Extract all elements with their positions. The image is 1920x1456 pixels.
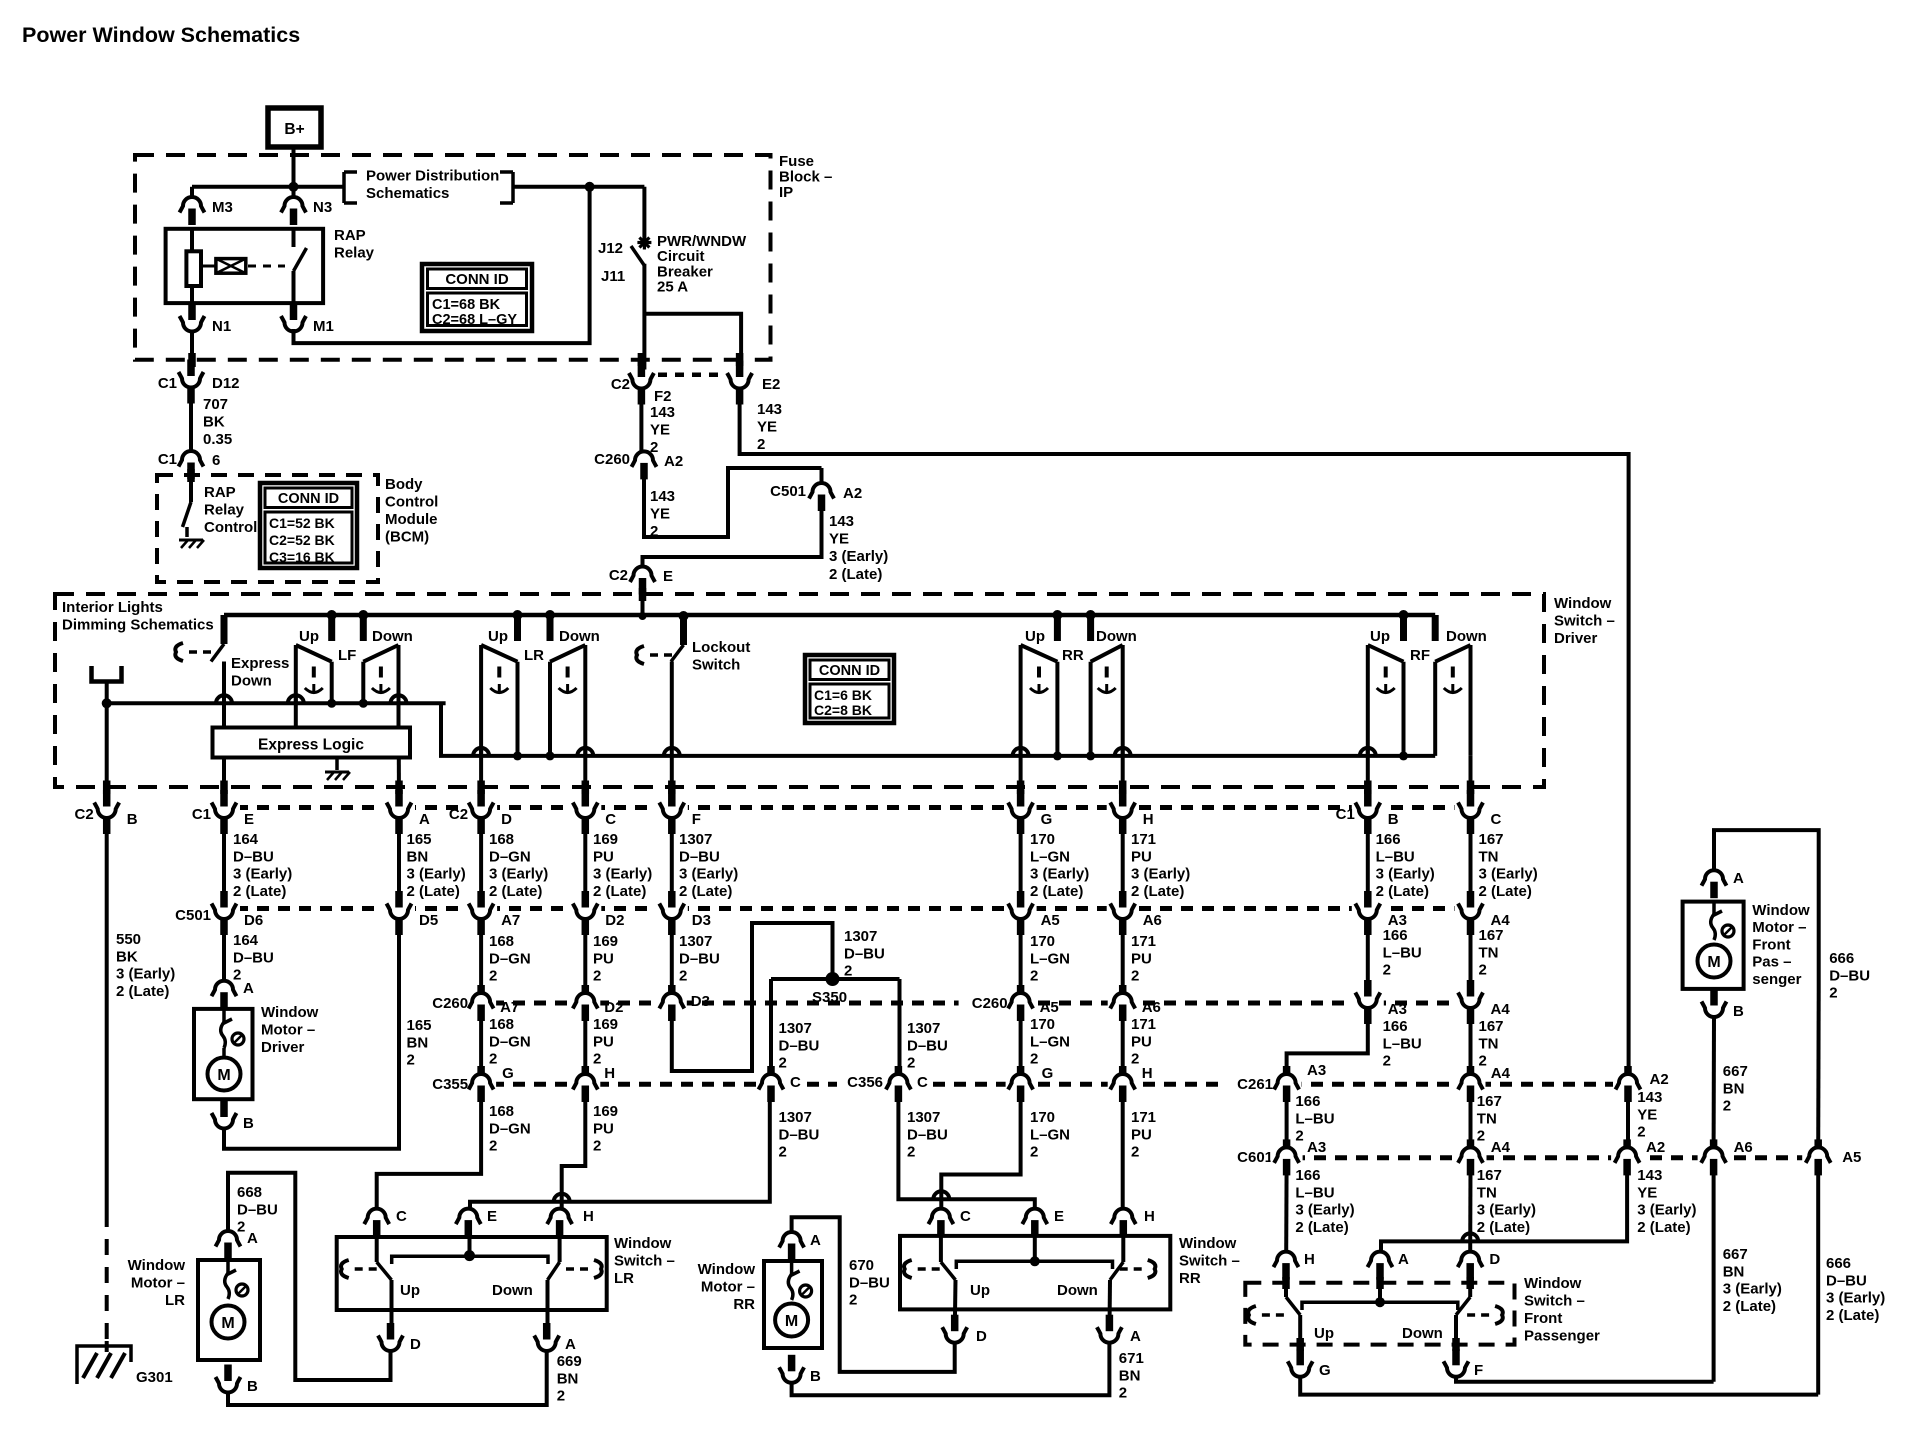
connector row1 pin B (C2) bbox=[75, 790, 138, 834]
relay coil bbox=[186, 229, 201, 303]
svg-text:TN: TN bbox=[1477, 1184, 1497, 1201]
connector row2 dashed line bbox=[236, 906, 1458, 911]
svg-text:2 (Late): 2 (Late) bbox=[1479, 883, 1532, 900]
svg-text:D–BU: D–BU bbox=[779, 1126, 820, 1143]
RR switch bracket bbox=[956, 1261, 1112, 1269]
svg-text:Motor –: Motor – bbox=[701, 1279, 755, 1296]
label J11 bbox=[601, 268, 625, 285]
connector RR motor B bbox=[777, 1355, 821, 1385]
connector row1 pin D (C2) bbox=[449, 790, 512, 834]
label A6 pin C601 bbox=[1730, 1138, 1760, 1156]
label RF bbox=[1410, 647, 1430, 664]
svg-text:707: 707 bbox=[203, 396, 228, 413]
svg-text:168: 168 bbox=[489, 1103, 514, 1120]
node C2 E at bus bbox=[639, 612, 647, 620]
window switch driver dashed box bbox=[55, 594, 1544, 787]
svg-text:Switch –: Switch – bbox=[1524, 1293, 1585, 1310]
label Down RR bbox=[1096, 628, 1137, 645]
svg-text:2: 2 bbox=[679, 968, 687, 985]
svg-text:Window: Window bbox=[1179, 1235, 1237, 1252]
svg-text:D–BU: D–BU bbox=[233, 848, 274, 865]
wire motor driver B loop to D5 bbox=[224, 919, 399, 1149]
svg-text:A4: A4 bbox=[1491, 1065, 1511, 1082]
wire LR up to D bbox=[479, 748, 483, 808]
connector C261 A4 bbox=[1456, 1066, 1486, 1102]
svg-text:2: 2 bbox=[1723, 1098, 1731, 1115]
wire LR down to C bbox=[583, 748, 587, 808]
LR switch E link bbox=[464, 1222, 475, 1261]
svg-text:M1: M1 bbox=[313, 318, 334, 335]
wire 1307 left lower bbox=[470, 1092, 819, 1209]
svg-text:2: 2 bbox=[407, 1052, 415, 1069]
svg-text:2: 2 bbox=[907, 1055, 915, 1072]
svg-text:Down: Down bbox=[231, 673, 272, 690]
connector row2 pin A5 bbox=[1005, 891, 1060, 935]
label Up RF bbox=[1370, 628, 1390, 645]
svg-text:Express: Express bbox=[231, 655, 289, 672]
label Body Control Module BCM bbox=[385, 476, 438, 546]
svg-text:Motor –: Motor – bbox=[131, 1275, 185, 1292]
wire 1307 D-BU 2 upper bbox=[672, 919, 720, 993]
wire 166 L-BU 2 a bbox=[1368, 919, 1422, 995]
svg-text:C3=16 BK: C3=16 BK bbox=[269, 549, 335, 565]
label Down RR switch bbox=[1057, 1282, 1098, 1299]
connector motor driver B bbox=[209, 1101, 254, 1133]
svg-text:LR: LR bbox=[524, 647, 544, 664]
RAP relay control switch bbox=[183, 469, 192, 537]
connector LR motor B bbox=[213, 1365, 258, 1396]
svg-text:(BCM): (BCM) bbox=[385, 529, 429, 546]
svg-text:2: 2 bbox=[1479, 1053, 1487, 1070]
window switch RF down bbox=[1435, 645, 1470, 756]
wire 170 L-GN 2 mid bbox=[1021, 1011, 1070, 1082]
svg-text:171: 171 bbox=[1131, 1109, 1156, 1126]
svg-text:BK: BK bbox=[203, 414, 225, 431]
wire S350 right branch bbox=[900, 979, 948, 1075]
window motor FP box bbox=[1683, 902, 1744, 989]
svg-text:1307: 1307 bbox=[679, 933, 712, 950]
svg-text:550: 550 bbox=[116, 931, 141, 948]
label A5 pin C601 bbox=[1842, 1149, 1861, 1166]
svg-text:PU: PU bbox=[1131, 848, 1152, 865]
svg-text:C: C bbox=[1491, 811, 1502, 828]
svg-text:170: 170 bbox=[1030, 1016, 1055, 1033]
svg-text:C: C bbox=[790, 1074, 801, 1091]
wire label 670 D-BU 2 bbox=[849, 1257, 890, 1309]
wire M3 drop bbox=[190, 187, 194, 199]
svg-text:2: 2 bbox=[1030, 1144, 1038, 1161]
svg-text:1307: 1307 bbox=[907, 1109, 940, 1126]
svg-text:Front: Front bbox=[1524, 1310, 1562, 1327]
svg-text:BN: BN bbox=[407, 848, 429, 865]
svg-text:3 (Early): 3 (Early) bbox=[679, 866, 738, 883]
svg-text:G: G bbox=[1042, 1065, 1054, 1082]
CONN ID table BCM bbox=[260, 483, 357, 568]
svg-text:167: 167 bbox=[1479, 927, 1504, 944]
svg-text:L–GN: L–GN bbox=[1030, 950, 1070, 967]
svg-text:169: 169 bbox=[593, 933, 618, 950]
svg-text:A3: A3 bbox=[1307, 1062, 1326, 1079]
LR arrow right bbox=[566, 1260, 602, 1278]
express logic ground stem bbox=[335, 758, 339, 771]
label Window Switch Front Passenger bbox=[1524, 1275, 1600, 1345]
wire LR motor A loop bbox=[228, 1173, 391, 1380]
node LR up bus bbox=[513, 751, 522, 760]
wire 167 TN col x1470 bbox=[1471, 818, 1538, 905]
wire 167 TN early/late bbox=[1470, 1166, 1536, 1252]
svg-text:Up: Up bbox=[400, 1282, 420, 1299]
connector LR switch D bbox=[376, 1323, 422, 1353]
svg-text:2 (Late): 2 (Late) bbox=[679, 883, 732, 900]
LR switch H blade bbox=[548, 1222, 560, 1344]
svg-text:167: 167 bbox=[1477, 1167, 1502, 1184]
FP motor M bbox=[1698, 945, 1731, 978]
svg-text:169: 169 bbox=[593, 1016, 618, 1033]
svg-text:165: 165 bbox=[407, 1017, 432, 1034]
svg-text:D3: D3 bbox=[691, 993, 710, 1010]
svg-text:2: 2 bbox=[1295, 1128, 1303, 1145]
svg-text:A: A bbox=[810, 1232, 821, 1249]
driver box top crossing stub C2 E bbox=[639, 588, 647, 601]
connector LR switch C bbox=[362, 1208, 407, 1237]
svg-text:H: H bbox=[1143, 811, 1154, 828]
wire label 143 YE 2 (E2) bbox=[757, 401, 782, 453]
svg-text:RR: RR bbox=[733, 1296, 755, 1313]
connector C501 A2 bbox=[770, 483, 862, 511]
connector RR switch D bbox=[940, 1315, 987, 1345]
connector row C2 F2/E2 dashes bbox=[658, 373, 726, 378]
svg-text:A: A bbox=[1398, 1251, 1409, 1268]
wire express logic to E bbox=[222, 758, 226, 809]
svg-text:C2: C2 bbox=[449, 806, 468, 823]
svg-text:3 (Early): 3 (Early) bbox=[1826, 1290, 1885, 1307]
window switch RR down bbox=[1091, 645, 1123, 756]
BCM box top crossing stub bbox=[187, 469, 195, 482]
dimming schematics plug symbol bbox=[92, 666, 122, 682]
svg-text:Window: Window bbox=[261, 1004, 319, 1021]
svg-text:A: A bbox=[243, 980, 254, 997]
circuit breaker blade bbox=[631, 246, 644, 265]
wire label 1307 D-BU 2 (S350 feed) bbox=[844, 928, 885, 980]
connector row3 A3 bbox=[1352, 980, 1407, 1024]
ground G301 bbox=[77, 1341, 173, 1386]
svg-text:C1=68 BK: C1=68 BK bbox=[432, 297, 501, 313]
svg-text:H: H bbox=[583, 1208, 594, 1225]
wire 143 YE 2 c bbox=[1628, 1089, 1665, 1156]
svg-text:C356: C356 bbox=[847, 1074, 883, 1091]
svg-text:M: M bbox=[785, 1313, 798, 1330]
connector motor driver A bbox=[209, 980, 254, 1009]
connector row1 pin B (C1) bbox=[1336, 790, 1399, 834]
label A3 pin C261 bbox=[1307, 1062, 1326, 1079]
svg-text:C355: C355 bbox=[432, 1076, 468, 1093]
connector C260 A2 bbox=[594, 451, 683, 479]
svg-text:C: C bbox=[396, 1208, 407, 1225]
svg-text:C2=68 L–GY: C2=68 L–GY bbox=[432, 312, 517, 328]
svg-text:J11: J11 bbox=[601, 268, 625, 285]
connector C260 D3 bbox=[657, 985, 710, 1021]
svg-text:2: 2 bbox=[557, 1388, 565, 1405]
svg-text:A: A bbox=[1733, 870, 1744, 887]
wire 167 TN 2 a bbox=[1471, 919, 1504, 995]
svg-text:2 (Late): 2 (Late) bbox=[489, 883, 542, 900]
svg-text:C501: C501 bbox=[770, 483, 806, 500]
connector LR switch A bbox=[532, 1323, 582, 1405]
connector C260 D2 bbox=[570, 985, 623, 1021]
svg-text:Pas –: Pas – bbox=[1752, 954, 1791, 971]
wire 168 D–GN col x481 bbox=[481, 818, 548, 905]
wire N1 to C1 D12 bbox=[190, 330, 194, 373]
svg-text:Power Distribution: Power Distribution bbox=[366, 168, 499, 185]
wire express logic to A bbox=[397, 758, 401, 809]
svg-text:Dimming Schematics: Dimming Schematics bbox=[62, 617, 214, 634]
svg-text:2: 2 bbox=[1829, 985, 1837, 1002]
title bbox=[22, 23, 300, 47]
svg-text:C: C bbox=[960, 1208, 971, 1225]
svg-text:Down: Down bbox=[492, 1282, 533, 1299]
svg-text:2: 2 bbox=[489, 1051, 497, 1068]
wire label 707 BK 0.35 bbox=[203, 396, 232, 448]
svg-text:2 (Late): 2 (Late) bbox=[1826, 1307, 1879, 1324]
relay dashed link bbox=[248, 265, 285, 268]
wire 666 D-BU early/late bbox=[1818, 1166, 1885, 1395]
svg-text:C2=8 BK: C2=8 BK bbox=[814, 702, 872, 718]
svg-text:C2: C2 bbox=[611, 376, 630, 393]
svg-text:CONN ID: CONN ID bbox=[819, 663, 880, 679]
connector C601 pin A6 bbox=[1698, 1139, 1730, 1175]
svg-text:25 A: 25 A bbox=[657, 279, 688, 296]
svg-text:0.35: 0.35 bbox=[203, 431, 232, 448]
svg-text:YE: YE bbox=[650, 422, 670, 439]
wire 166 L-BU 2 c bbox=[1287, 1092, 1335, 1156]
bump LF up bbox=[288, 695, 304, 703]
svg-text:671: 671 bbox=[1119, 1350, 1144, 1367]
label Up LR bbox=[488, 628, 508, 645]
svg-text:Down: Down bbox=[1096, 628, 1137, 645]
svg-text:N3: N3 bbox=[313, 199, 332, 216]
switch RR down stub bbox=[1087, 615, 1094, 641]
svg-text:1307: 1307 bbox=[679, 831, 712, 848]
bump 1307-right over RR C wire bbox=[933, 1191, 949, 1199]
wire 169 PU 2 mid bbox=[585, 1011, 618, 1082]
connector LR motor A bbox=[213, 1184, 278, 1259]
svg-text:D–BU: D–BU bbox=[679, 848, 720, 865]
connector row2 pin A6 bbox=[1107, 891, 1162, 935]
connector RR switch C bbox=[926, 1208, 971, 1237]
svg-text:2: 2 bbox=[779, 1144, 787, 1161]
wire D3 loop to S350 bbox=[672, 923, 833, 1071]
svg-text:H: H bbox=[1144, 1208, 1155, 1225]
svg-text:Up: Up bbox=[1314, 1325, 1334, 1342]
svg-text:L–GN: L–GN bbox=[1030, 1126, 1070, 1143]
window switch FP dashed box bbox=[1245, 1283, 1514, 1345]
FP switch bracket bbox=[1302, 1302, 1458, 1310]
connector C261 A3 bbox=[1226, 1066, 1302, 1102]
bump LR down bbox=[577, 748, 593, 756]
fuse block dashed outline bbox=[135, 155, 771, 360]
svg-text:LF: LF bbox=[338, 647, 356, 664]
wire S350 rail bbox=[771, 977, 900, 981]
LR motor M bbox=[212, 1306, 245, 1339]
svg-text:G: G bbox=[1041, 811, 1053, 828]
svg-text:Window: Window bbox=[614, 1235, 672, 1252]
label LF bbox=[338, 647, 356, 664]
svg-text:E: E bbox=[663, 568, 673, 585]
connector FP switch G bbox=[1285, 1349, 1330, 1379]
connector C260 A7 bbox=[432, 985, 519, 1021]
svg-text:H: H bbox=[604, 1065, 615, 1082]
connector row2 pin D6 bbox=[208, 891, 263, 935]
svg-text:6: 6 bbox=[212, 452, 220, 469]
label Down FP switch bbox=[1402, 1325, 1443, 1342]
svg-text:Down: Down bbox=[1446, 628, 1487, 645]
BCM dashed box bbox=[157, 475, 378, 582]
svg-text:F: F bbox=[692, 811, 701, 828]
wire 168 D-GN 2 upper bbox=[481, 919, 531, 993]
svg-text:171: 171 bbox=[1131, 1016, 1156, 1033]
bump lockout bbox=[664, 748, 680, 756]
wire RF down to C bbox=[1469, 756, 1473, 808]
svg-text:Control: Control bbox=[204, 519, 257, 536]
svg-text:C: C bbox=[605, 811, 616, 828]
svg-text:C260: C260 bbox=[594, 451, 630, 468]
node RR down stub bbox=[1086, 610, 1096, 620]
svg-text:A7: A7 bbox=[500, 999, 519, 1016]
wire express down to logic bbox=[222, 662, 226, 728]
wire 168 D-GN 2 mid bbox=[481, 1011, 531, 1082]
svg-text:168: 168 bbox=[489, 933, 514, 950]
connector row2 pin A4 bbox=[1455, 891, 1511, 935]
wire FP G to 666 bbox=[1300, 1375, 1818, 1395]
svg-text:PU: PU bbox=[1131, 1126, 1152, 1143]
motor driver M bbox=[208, 1058, 241, 1091]
svg-text:166: 166 bbox=[1295, 1093, 1320, 1110]
svg-text:E: E bbox=[487, 1208, 497, 1225]
splice S350 bbox=[812, 972, 847, 1006]
wire bus y187 left segment bbox=[192, 185, 344, 189]
wire E2 feed to right side bbox=[740, 389, 1629, 1074]
svg-text:N1: N1 bbox=[212, 318, 231, 335]
svg-text:666: 666 bbox=[1829, 950, 1854, 967]
connector row1 pin C (sw) bbox=[569, 790, 616, 834]
connector M1 bbox=[279, 304, 334, 336]
wire 1307 right lower bbox=[898, 1092, 1034, 1209]
svg-text:C260: C260 bbox=[972, 995, 1008, 1012]
svg-text:L–BU: L–BU bbox=[1376, 848, 1415, 865]
svg-text:Driver: Driver bbox=[261, 1039, 305, 1056]
window motor RR box bbox=[764, 1261, 822, 1348]
svg-text:TN: TN bbox=[1479, 944, 1499, 961]
svg-text:RAP: RAP bbox=[204, 484, 236, 501]
svg-text:3 (Early): 3 (Early) bbox=[1479, 866, 1538, 883]
connector C261 A2 bbox=[1613, 1066, 1643, 1102]
label Window Motor Driver bbox=[261, 1004, 319, 1056]
node LF down bus bbox=[359, 699, 368, 708]
wire bus y187 right segment bbox=[513, 185, 644, 189]
RR switch E link bbox=[1030, 1222, 1040, 1266]
svg-text:667: 667 bbox=[1723, 1246, 1748, 1263]
svg-text:2: 2 bbox=[593, 1051, 601, 1068]
connector C601 pin A5 bbox=[1802, 1139, 1834, 1175]
svg-text:143: 143 bbox=[650, 404, 675, 421]
svg-text:A: A bbox=[247, 1230, 258, 1247]
RR arrow right bbox=[1120, 1260, 1156, 1278]
svg-text:D2: D2 bbox=[605, 912, 624, 929]
label Up RR switch bbox=[970, 1282, 990, 1299]
svg-text:Up: Up bbox=[488, 628, 508, 645]
svg-text:2: 2 bbox=[907, 1144, 915, 1161]
svg-text:2 (Late): 2 (Late) bbox=[1295, 1219, 1348, 1236]
svg-text:C261: C261 bbox=[1237, 1076, 1273, 1093]
driver box bottom crossing stubs bbox=[107, 781, 1471, 795]
wire 1307 D–BU col x671 bbox=[672, 818, 738, 905]
svg-text:Down: Down bbox=[372, 628, 413, 645]
svg-text:Motor –: Motor – bbox=[261, 1022, 315, 1039]
svg-text:D–BU: D–BU bbox=[849, 1274, 890, 1291]
LR switch bracket bbox=[392, 1256, 548, 1264]
svg-text:3 (Early): 3 (Early) bbox=[116, 966, 175, 983]
switch LR up stub bbox=[514, 615, 521, 641]
node RF up stub bbox=[1399, 610, 1409, 620]
svg-text:YE: YE bbox=[829, 531, 849, 548]
svg-text:Window: Window bbox=[128, 1257, 186, 1274]
connector row C355/C261 dashed bbox=[492, 1082, 1640, 1087]
svg-text:E: E bbox=[244, 811, 254, 828]
label Lockout Switch bbox=[692, 639, 750, 674]
svg-text:A2: A2 bbox=[664, 453, 683, 470]
label C501 row2 bbox=[175, 907, 211, 924]
circuit breaker contact star bbox=[637, 236, 651, 250]
wire breaker output bbox=[642, 264, 646, 372]
CONN ID table driver switch bbox=[805, 655, 894, 723]
ground BCM bbox=[179, 540, 204, 548]
svg-text:Down: Down bbox=[559, 628, 600, 645]
window motor driver box bbox=[194, 1009, 253, 1099]
wire 170 L-GN 2 upper bbox=[1021, 919, 1070, 993]
connector C355 H2 bbox=[1108, 1066, 1138, 1102]
svg-text:A4: A4 bbox=[1491, 1139, 1511, 1156]
label Window Switch LR bbox=[614, 1235, 675, 1287]
label Window Switch Driver bbox=[1554, 595, 1615, 647]
svg-text:C2: C2 bbox=[609, 567, 628, 584]
svg-text:2: 2 bbox=[1131, 1051, 1139, 1068]
svg-text:1307: 1307 bbox=[844, 928, 877, 945]
svg-text:D–GN: D–GN bbox=[489, 950, 531, 967]
wire 167 TN 2 b bbox=[1471, 1010, 1511, 1082]
svg-text:Body: Body bbox=[385, 476, 423, 493]
label Fuse Block - IP bbox=[779, 153, 832, 201]
connector FP motor B bbox=[1699, 989, 1744, 1020]
window switch LR box bbox=[337, 1237, 607, 1310]
svg-text:D5: D5 bbox=[419, 912, 438, 929]
svg-text:B: B bbox=[127, 811, 138, 828]
svg-text:D–BU: D–BU bbox=[679, 950, 720, 967]
svg-text:Window: Window bbox=[1554, 595, 1612, 612]
svg-text:2: 2 bbox=[1383, 962, 1391, 979]
svg-text:2 (Late): 2 (Late) bbox=[116, 983, 169, 1000]
svg-text:IP: IP bbox=[779, 184, 793, 201]
svg-text:E: E bbox=[1054, 1208, 1064, 1225]
FP arrow left bbox=[1248, 1306, 1284, 1324]
RR arrow left bbox=[904, 1260, 940, 1278]
svg-text:2: 2 bbox=[1637, 1124, 1645, 1141]
label Up LR switch bbox=[400, 1282, 420, 1299]
bump LR up bbox=[473, 748, 489, 756]
svg-text:B: B bbox=[247, 1378, 258, 1395]
node junction B+ bus bbox=[289, 182, 299, 192]
connector C355 G2 bbox=[1006, 1066, 1036, 1102]
svg-text:D–BU: D–BU bbox=[907, 1126, 948, 1143]
